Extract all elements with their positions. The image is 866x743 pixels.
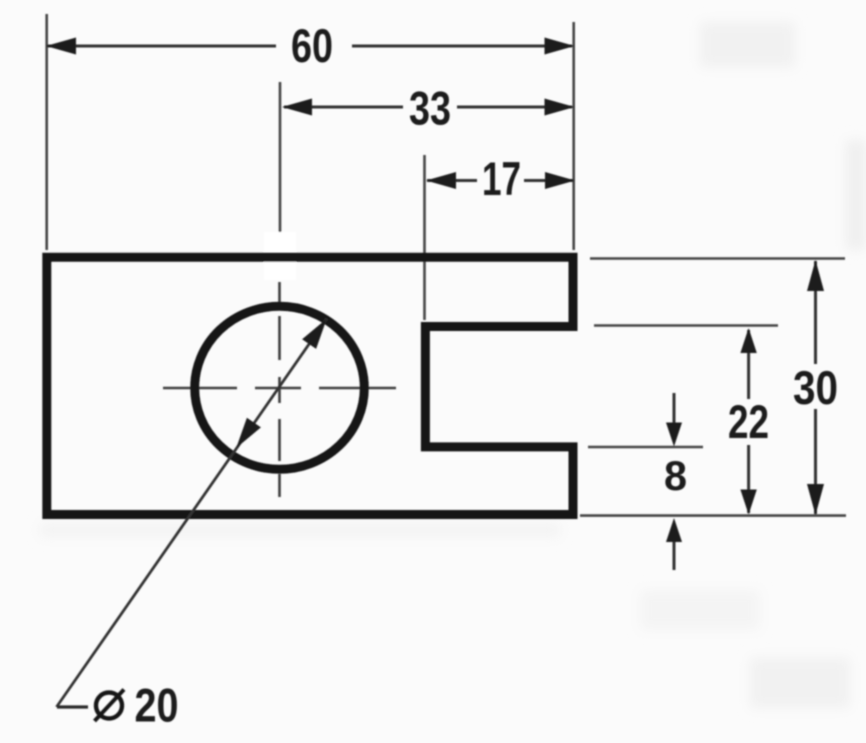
svg-text:8: 8 xyxy=(664,452,687,499)
centerline horizontal xyxy=(163,387,396,390)
dimension 17 line xyxy=(427,179,477,182)
centerline vertical xyxy=(278,282,281,497)
diameter symbol xyxy=(96,693,122,719)
svg-text:30: 30 xyxy=(793,361,838,414)
part outline xyxy=(47,257,573,514)
extension line centre (33) xyxy=(279,82,282,234)
dimension 33 line xyxy=(284,106,403,109)
leader lower arrow xyxy=(236,418,261,448)
svg-text:22: 22 xyxy=(728,395,769,448)
dimension 30 arrows xyxy=(807,260,824,291)
dimension 30 line xyxy=(814,261,817,364)
extension line bottom-right (30/22/8) xyxy=(580,514,846,517)
svg-text:33: 33 xyxy=(409,82,451,135)
diameter leader line xyxy=(57,319,327,707)
extension line slot-left (17) xyxy=(423,155,426,320)
svg-text:17: 17 xyxy=(482,152,521,205)
extension line slot-top (22) xyxy=(594,324,778,327)
dimension 8 upper arrow xyxy=(673,393,676,424)
dimension 22 line xyxy=(747,330,750,399)
leader shoulder xyxy=(57,705,88,708)
svg-text:60: 60 xyxy=(291,19,333,72)
extension line left (60) xyxy=(45,14,48,250)
hole circle xyxy=(195,306,365,469)
white patches over extension line xyxy=(264,232,296,251)
extension line slot-bottom (8) xyxy=(588,446,703,449)
dimension 60 line xyxy=(47,45,276,48)
svg-text:20: 20 xyxy=(135,679,179,732)
dimension 8 lower arrow xyxy=(673,540,676,570)
extension line right (60/33/17) xyxy=(572,22,575,250)
dimension 33 arrows xyxy=(282,99,312,116)
dimension 17 arrows xyxy=(426,172,456,189)
leader upper arrow xyxy=(302,319,327,349)
extension line top-right (30) xyxy=(590,257,845,260)
dimension 22 arrows xyxy=(740,328,756,353)
dimension 60 arrows xyxy=(46,38,76,55)
